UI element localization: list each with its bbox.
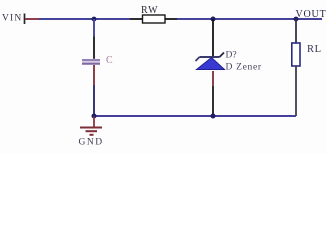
svg-text:VIN: VIN: [2, 14, 23, 24]
svg-text:D Zener: D Zener: [226, 63, 262, 73]
svg-text:GND: GND: [79, 138, 104, 148]
svg-text:D?: D?: [226, 51, 237, 61]
svg-text:C: C: [106, 55, 113, 66]
svg-text:RW: RW: [141, 5, 159, 16]
svg-text:VOUT: VOUT: [296, 9, 327, 20]
svg-text:RL: RL: [307, 44, 322, 55]
